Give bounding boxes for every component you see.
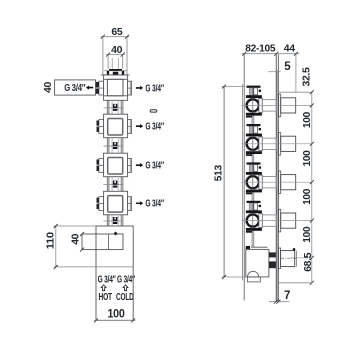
svg-text:100: 100 [301, 150, 313, 166]
svg-text:G 3/4″: G 3/4″ [145, 160, 164, 172]
svg-text:G 3/4″: G 3/4″ [64, 83, 85, 94]
svg-text:40: 40 [43, 81, 54, 93]
svg-text:100: 100 [301, 226, 313, 242]
svg-text:5: 5 [284, 61, 291, 73]
svg-text:32.5: 32.5 [301, 67, 313, 86]
svg-text:G 3/4″: G 3/4″ [117, 274, 135, 285]
svg-text:40: 40 [111, 44, 122, 56]
svg-text:100: 100 [301, 112, 313, 128]
svg-text:513: 513 [212, 165, 224, 181]
svg-text:44: 44 [284, 43, 295, 55]
svg-text:HOT: HOT [98, 291, 112, 303]
svg-text:G 3/4″: G 3/4″ [145, 82, 164, 94]
svg-text:7: 7 [284, 290, 290, 302]
svg-text:G 3/4″: G 3/4″ [145, 121, 164, 133]
svg-text:110: 110 [45, 231, 56, 249]
svg-text:68.5: 68.5 [302, 252, 314, 271]
svg-text:82-105: 82-105 [245, 43, 275, 55]
svg-text:40: 40 [70, 233, 81, 245]
svg-text:100: 100 [301, 188, 313, 204]
svg-text:COLD: COLD [116, 291, 134, 303]
svg-text:G 3/4″: G 3/4″ [98, 274, 116, 285]
svg-text:G 3/4″: G 3/4″ [145, 198, 164, 210]
svg-text:100: 100 [108, 307, 126, 321]
